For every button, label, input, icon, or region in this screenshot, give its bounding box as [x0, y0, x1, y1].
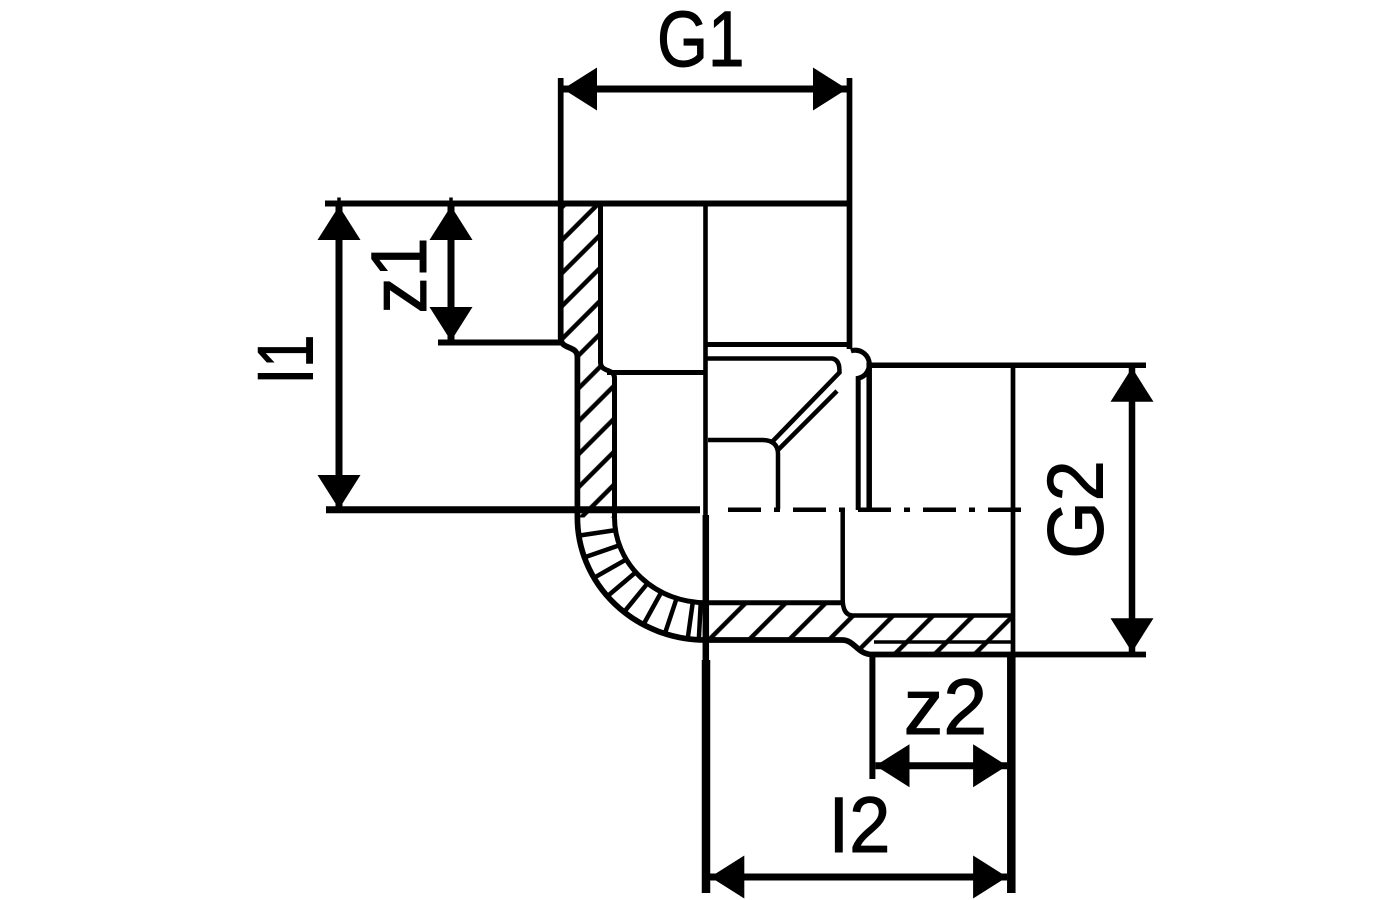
- svg-text:z2: z2: [904, 662, 987, 751]
- svg-text:G1: G1: [657, 0, 745, 83]
- svg-text:I2: I2: [829, 780, 891, 869]
- svg-text:G2: G2: [1031, 460, 1120, 559]
- svg-text:I1: I1: [241, 335, 330, 385]
- svg-text:z1: z1: [354, 238, 443, 314]
